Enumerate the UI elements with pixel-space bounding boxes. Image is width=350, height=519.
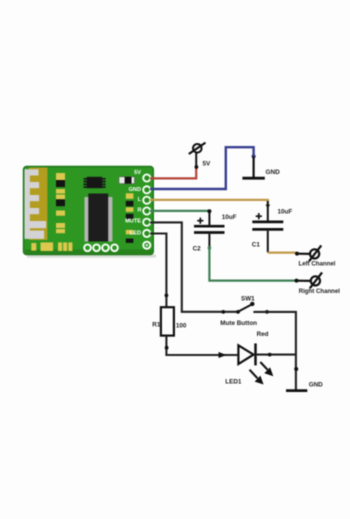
node LED anode arrow bbox=[219, 352, 227, 358]
svg-text:LED1: LED1 bbox=[225, 378, 242, 385]
switch SW1 bbox=[236, 302, 269, 314]
svg-text:LED: LED bbox=[130, 231, 141, 237]
bluetooth audio receiver module U1 (green PCB) bbox=[24, 167, 157, 258]
module diode D1 (white-black-white) bbox=[119, 177, 135, 184]
C1 value label 10uF bbox=[278, 209, 293, 216]
svg-text:R: R bbox=[137, 208, 141, 214]
LED1 color label Red bbox=[257, 331, 269, 338]
svg-text:10uF: 10uF bbox=[278, 209, 293, 216]
R1 value label 100 bbox=[176, 323, 187, 330]
SW1 name label Mute Button bbox=[220, 320, 257, 327]
ground (top) bbox=[242, 156, 264, 178]
svg-text:10uF: 10uF bbox=[222, 214, 237, 221]
svg-text:GND: GND bbox=[129, 187, 141, 193]
svg-text:C2: C2 bbox=[193, 245, 202, 252]
svg-text:SW1: SW1 bbox=[241, 296, 255, 303]
capacitor C2 10uF bbox=[194, 211, 225, 248]
node left channel junction bbox=[295, 252, 299, 256]
ground (bottom) bbox=[286, 389, 307, 392]
svg-text:GND: GND bbox=[266, 169, 281, 176]
wire 5V red bbox=[150, 167, 196, 179]
node gnd rail dot bbox=[294, 367, 298, 371]
svg-text:C1: C1 bbox=[252, 241, 261, 248]
node C2 bottom junction bbox=[208, 246, 212, 250]
bottom ground label GND bbox=[309, 381, 323, 388]
wire L orange bbox=[150, 200, 268, 203]
pin 5V bbox=[134, 170, 151, 182]
J3 label Right Channel bbox=[299, 288, 341, 295]
wire GND blue bbox=[150, 147, 254, 189]
module crystal Y1 bbox=[85, 194, 113, 242]
C2 reference label bbox=[193, 245, 202, 252]
module antenna (gold pad with silver meander) bbox=[25, 168, 48, 241]
top ground label GND bbox=[266, 169, 281, 176]
pin L bbox=[138, 196, 152, 205]
svg-text:Mute Button: Mute Button bbox=[220, 320, 257, 327]
svg-text:Red: Red bbox=[257, 331, 269, 338]
node led wire dot bbox=[165, 294, 169, 298]
svg-text:L: L bbox=[138, 197, 142, 203]
R1 reference label bbox=[152, 321, 161, 328]
svg-text:Right Channel: Right Channel bbox=[299, 288, 341, 295]
wire R1 to LED1 bbox=[166, 336, 237, 355]
svg-text:5V: 5V bbox=[134, 170, 141, 176]
pin R bbox=[137, 207, 151, 216]
wire R green bbox=[150, 210, 209, 212]
module bottom pads row bbox=[31, 242, 72, 251]
wire C1 to left channel orange bbox=[268, 252, 296, 254]
svg-text:Left Channel: Left Channel bbox=[299, 261, 336, 268]
J1 label 5V bbox=[203, 161, 212, 168]
connector J2 Left Channel bbox=[297, 245, 321, 261]
module pads column 1 bbox=[56, 173, 65, 233]
node right channel junction bbox=[295, 279, 299, 283]
unused pad hole bbox=[142, 241, 151, 250]
C2 value label 10uF bbox=[222, 214, 237, 221]
node mute wire dot bbox=[221, 310, 225, 314]
SW1 reference label bbox=[241, 296, 255, 303]
pin MUTE bbox=[125, 218, 151, 227]
wire C2 to right channel green bbox=[209, 248, 295, 281]
svg-text:GND: GND bbox=[309, 381, 323, 388]
wire LED pin to R1 bbox=[150, 234, 166, 308]
resistor R1 100 bbox=[161, 307, 174, 335]
wire LED1 cathode to gnd rail bbox=[256, 354, 296, 356]
pin LED bbox=[130, 229, 151, 238]
module IC U2 bbox=[84, 177, 106, 188]
node cathode wire dot bbox=[268, 353, 272, 357]
wire MUTE to switch bbox=[150, 222, 238, 311]
LED1 reference label bbox=[225, 378, 242, 385]
node R / C2 junction bbox=[207, 209, 211, 213]
svg-text:MUTE: MUTE bbox=[125, 219, 141, 225]
connector J3 Right Channel bbox=[297, 272, 323, 288]
connector J1 5V bbox=[189, 143, 206, 169]
svg-text:100: 100 bbox=[176, 323, 187, 330]
capacitor C1 10uF bbox=[252, 201, 283, 252]
J2 label Left Channel bbox=[299, 261, 336, 268]
svg-text:5V: 5V bbox=[203, 161, 212, 168]
pin GND bbox=[129, 185, 152, 194]
module pads column 2 bbox=[126, 193, 134, 243]
svg-text:R1: R1 bbox=[152, 321, 161, 328]
wire switch to gnd rail bbox=[253, 312, 296, 390]
C1 reference label bbox=[252, 241, 261, 248]
module bottom hole row bbox=[83, 244, 119, 253]
LED LED1 bbox=[238, 343, 273, 384]
node GND junction bbox=[252, 154, 256, 158]
node R1 bottom dot bbox=[165, 346, 169, 350]
